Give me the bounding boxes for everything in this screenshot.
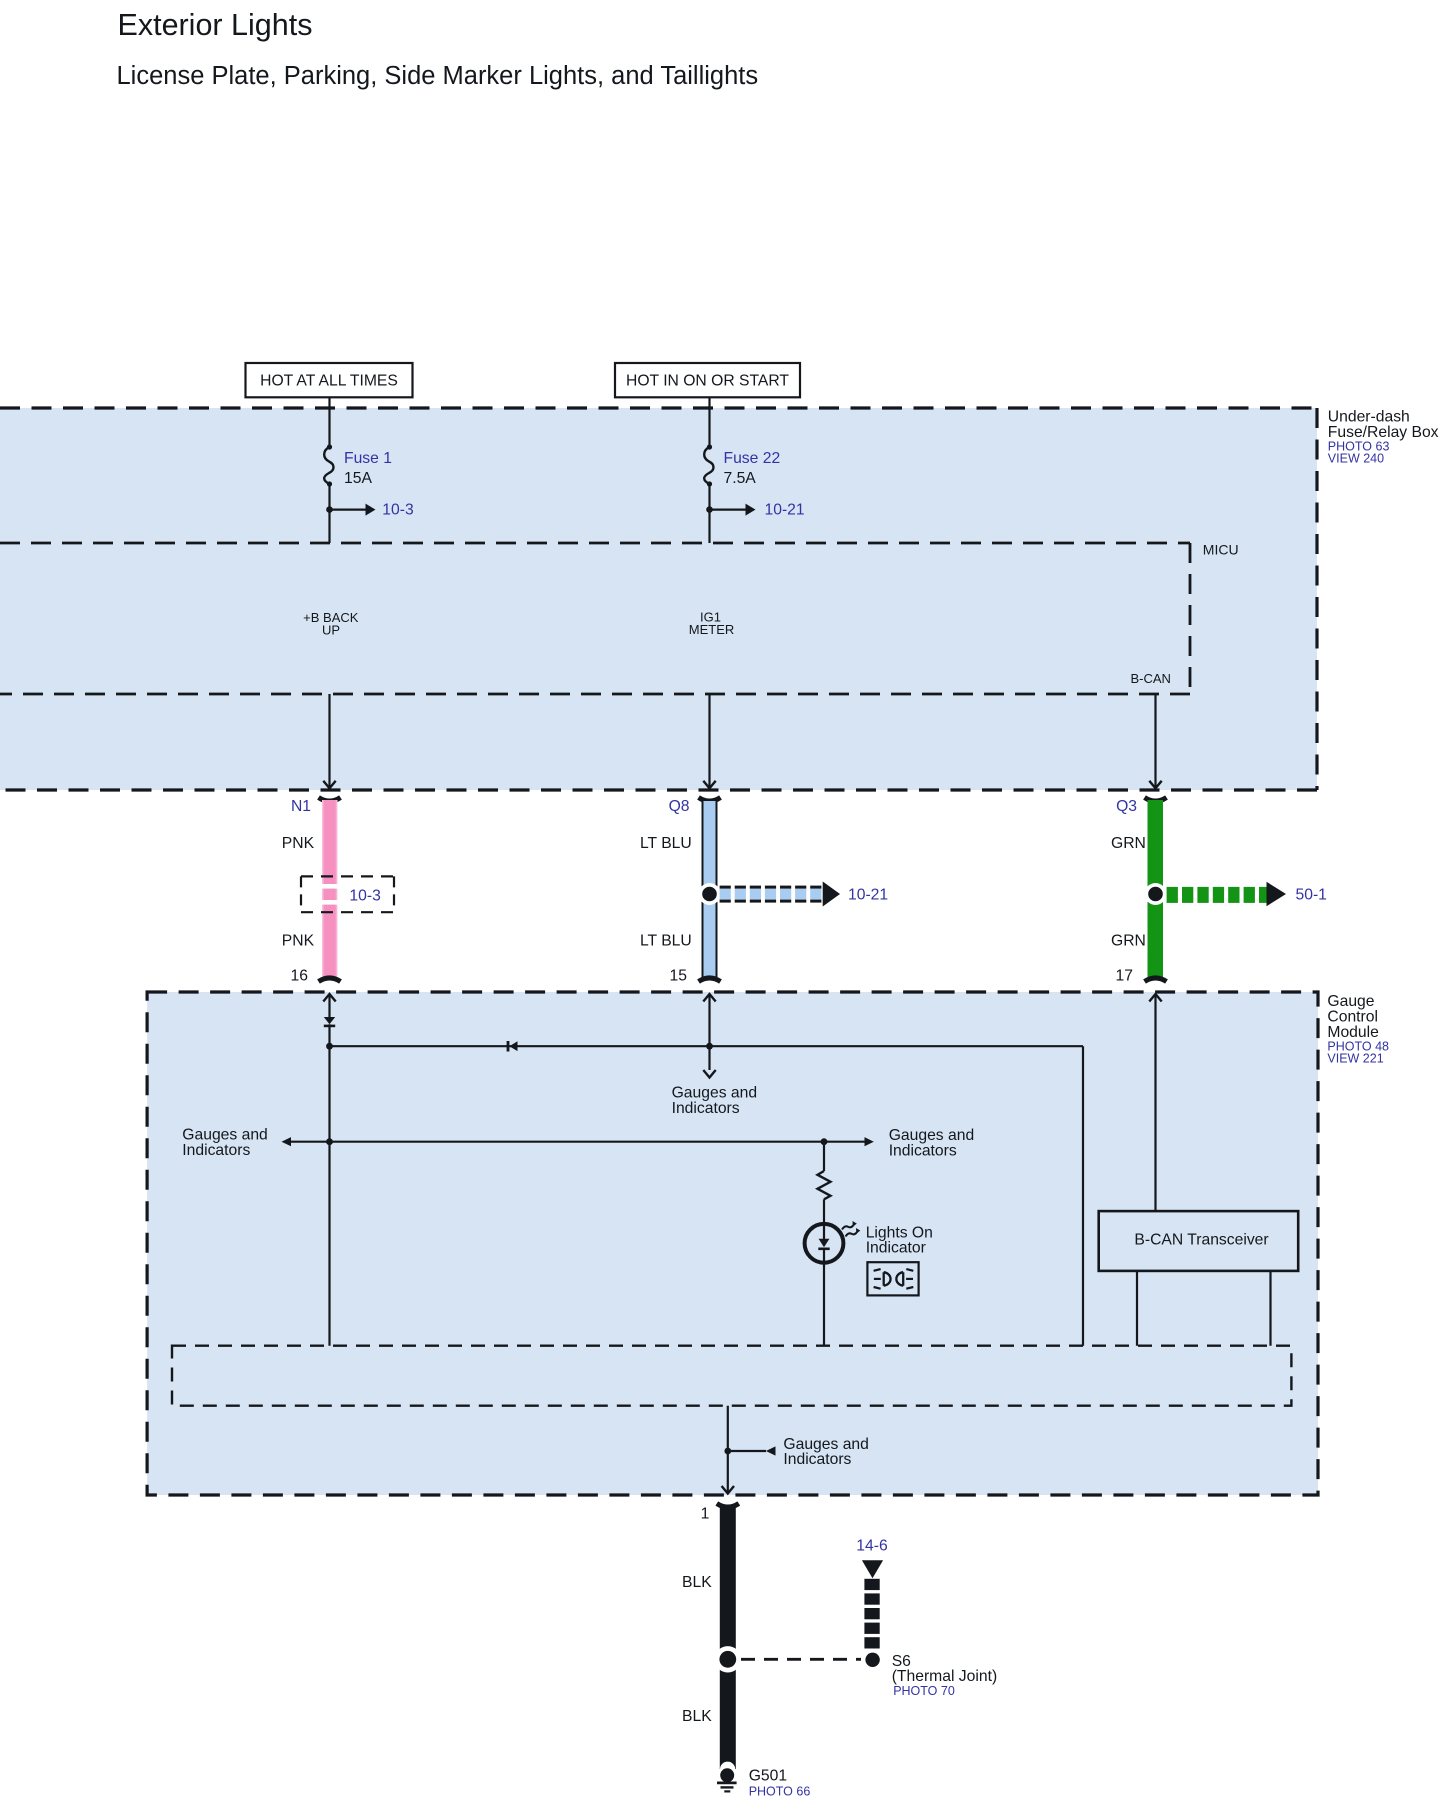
svg-text:10-21: 10-21 <box>848 887 888 904</box>
svg-text:50-1: 50-1 <box>1296 887 1327 904</box>
svg-text:BLK: BLK <box>682 1708 712 1725</box>
svg-text:Gauge: Gauge <box>1327 993 1374 1010</box>
svg-text:Indicators: Indicators <box>889 1142 957 1159</box>
svg-text:LT BLU: LT BLU <box>640 835 692 852</box>
svg-text:UP: UP <box>322 623 340 638</box>
svg-text:B-CAN: B-CAN <box>1131 671 1171 686</box>
svg-text:HOT AT ALL TIMES: HOT AT ALL TIMES <box>260 373 398 390</box>
svg-text:Exterior Lights: Exterior Lights <box>118 8 313 42</box>
svg-text:VIEW 221: VIEW 221 <box>1327 1051 1383 1065</box>
svg-text:Q3: Q3 <box>1116 798 1137 815</box>
svg-text:Indicators: Indicators <box>783 1451 851 1468</box>
svg-text:Fuse 1: Fuse 1 <box>344 450 392 467</box>
svg-text:10-21: 10-21 <box>765 502 805 519</box>
svg-text:10-3: 10-3 <box>349 887 381 904</box>
svg-text:Fuse/Relay Box: Fuse/Relay Box <box>1328 424 1439 441</box>
svg-text:15: 15 <box>670 968 688 985</box>
svg-text:BLK: BLK <box>682 1574 712 1591</box>
svg-text:METER: METER <box>689 622 735 637</box>
svg-text:Module: Module <box>1327 1024 1379 1041</box>
svg-text:VIEW 240: VIEW 240 <box>1328 451 1384 465</box>
svg-text:17: 17 <box>1116 968 1133 985</box>
svg-text:License Plate, Parking, Side M: License Plate, Parking, Side Marker Ligh… <box>117 62 759 90</box>
svg-text:Control: Control <box>1327 1009 1378 1026</box>
svg-text:16: 16 <box>291 968 309 985</box>
svg-text:LT BLU: LT BLU <box>640 933 692 950</box>
svg-text:7.5A: 7.5A <box>724 470 757 487</box>
svg-text:Indicators: Indicators <box>672 1100 740 1117</box>
svg-text:Fuse 22: Fuse 22 <box>724 450 781 467</box>
svg-text:Indicators: Indicators <box>182 1142 250 1159</box>
svg-text:N1: N1 <box>291 798 311 815</box>
svg-text:PHOTO 66: PHOTO 66 <box>749 1784 811 1798</box>
svg-text:15A: 15A <box>344 470 372 487</box>
svg-text:PNK: PNK <box>282 933 315 950</box>
svg-text:Q8: Q8 <box>669 798 690 815</box>
svg-text:10-3: 10-3 <box>382 502 414 519</box>
svg-text:1: 1 <box>701 1506 710 1523</box>
svg-text:PNK: PNK <box>282 835 315 852</box>
svg-text:GRN: GRN <box>1111 835 1146 852</box>
svg-text:GRN: GRN <box>1111 933 1146 950</box>
svg-text:B-CAN Transceiver: B-CAN Transceiver <box>1134 1232 1268 1249</box>
svg-text:14-6: 14-6 <box>856 1537 888 1554</box>
svg-text:Indicator: Indicator <box>866 1240 926 1257</box>
svg-text:PHOTO 70: PHOTO 70 <box>893 1684 955 1698</box>
svg-text:(Thermal Joint): (Thermal Joint) <box>892 1668 997 1685</box>
svg-text:MICU: MICU <box>1203 542 1239 558</box>
svg-text:HOT IN ON OR START: HOT IN ON OR START <box>626 373 789 390</box>
svg-text:G501: G501 <box>749 1768 787 1785</box>
